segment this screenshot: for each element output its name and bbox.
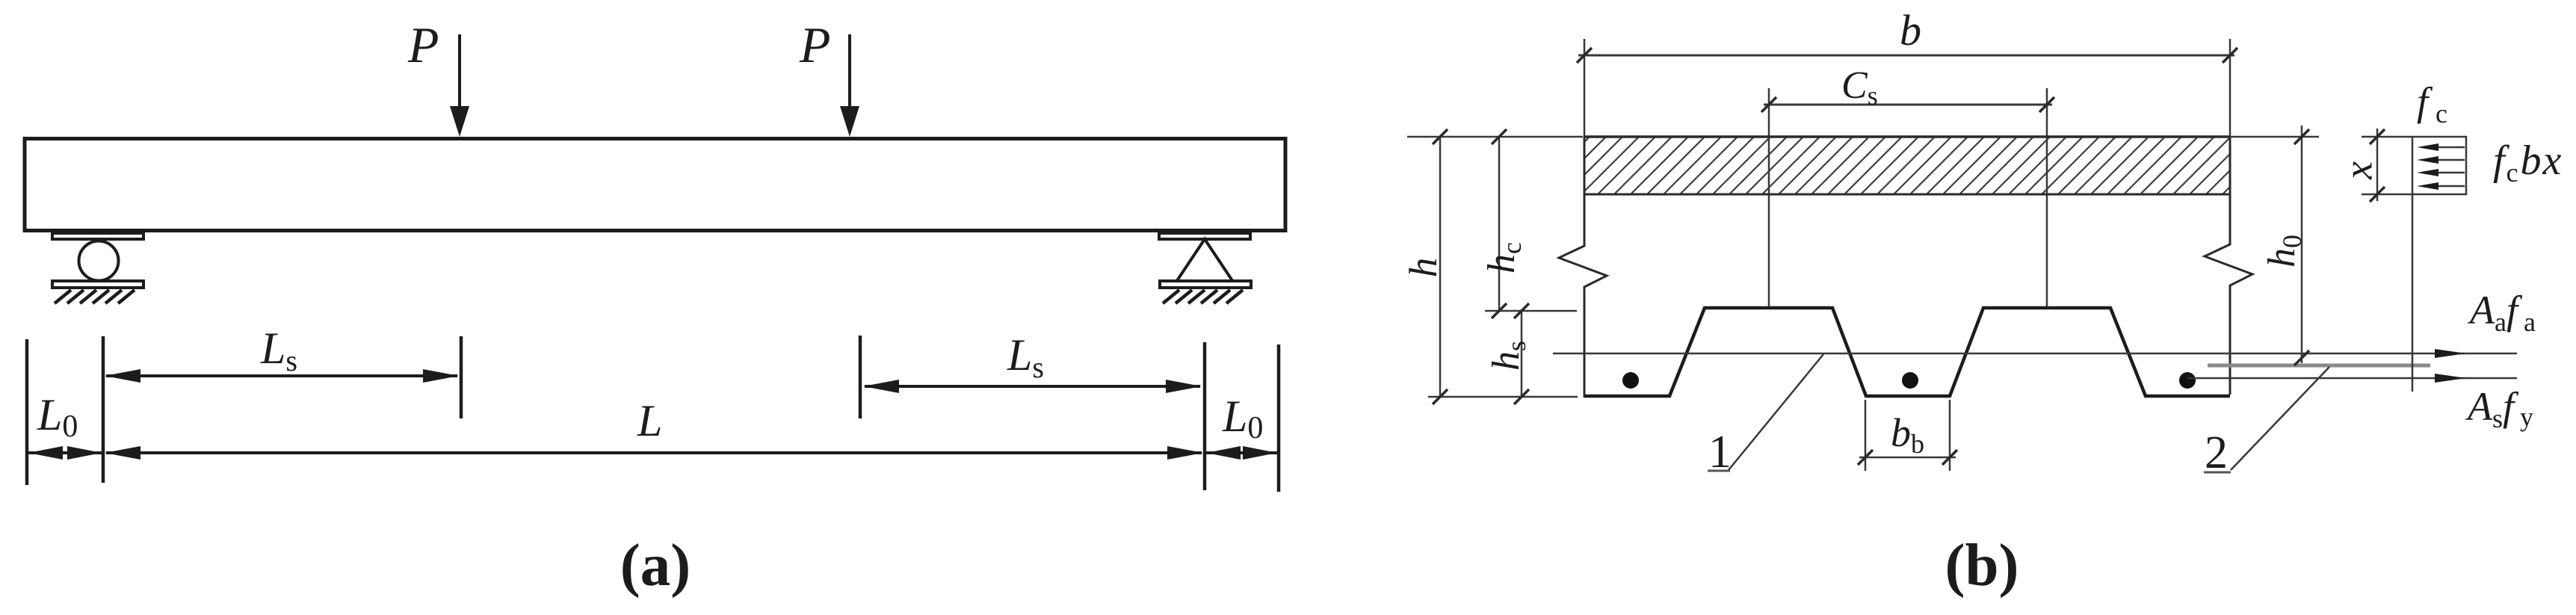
svg-text:x: x xyxy=(2335,161,2380,180)
dimension L0 left xyxy=(28,446,102,460)
label Ls right xyxy=(1007,330,1044,384)
dimension h0 xyxy=(2294,126,2309,365)
beam xyxy=(25,139,1285,231)
label fcbx xyxy=(2493,137,2563,188)
label bb xyxy=(1891,410,1924,459)
concrete slab hatched xyxy=(1584,137,2230,194)
svg-text:(b): (b) xyxy=(1945,531,2019,599)
svg-text:Aafa: Aafa xyxy=(2468,288,2536,337)
load arrow P2 xyxy=(840,34,859,137)
label x rotated xyxy=(2335,161,2380,180)
load arrow P1 xyxy=(450,34,469,137)
dimension tick B xyxy=(102,336,105,483)
label P1 xyxy=(407,16,439,73)
rebar dot 3 xyxy=(2179,372,2196,389)
rebar gray bar xyxy=(2208,364,2430,368)
label P2 xyxy=(799,16,831,73)
stress block axis line xyxy=(2412,137,2414,392)
extension line bottom left xyxy=(1428,396,1578,398)
svg-text:Asfy: Asfy xyxy=(2465,384,2533,433)
label h0 rotated xyxy=(2261,235,2307,268)
dimension x extension lines xyxy=(2362,137,2412,194)
stress block outline xyxy=(2412,137,2466,194)
svg-text:P: P xyxy=(407,16,439,73)
label Cs xyxy=(1841,64,1878,111)
extension line mid left xyxy=(1485,310,1577,312)
label L xyxy=(637,396,662,445)
slab left edge with break xyxy=(1559,137,1607,398)
svg-text:P: P xyxy=(799,16,831,73)
dimension bb xyxy=(1858,450,1957,465)
left roller support xyxy=(52,233,143,303)
label hc rotated xyxy=(1480,242,1527,273)
dimension Ls left xyxy=(105,369,459,383)
extension line top left xyxy=(1407,136,1583,138)
svg-text:hc: hc xyxy=(1480,242,1527,273)
steel deck profile xyxy=(1584,308,2230,396)
stress arrow 2 xyxy=(2417,156,2465,164)
dimension tick F xyxy=(1277,344,1281,492)
svg-text:Ls: Ls xyxy=(260,324,297,377)
dimension Ls right xyxy=(863,380,1202,393)
dimension bb extension lines xyxy=(1865,400,1950,471)
stress arrow 3 xyxy=(2417,169,2465,176)
dimension Cs xyxy=(1761,97,2054,112)
svg-text:h0: h0 xyxy=(2261,235,2307,268)
h0 extension line xyxy=(2230,136,2319,138)
label Ls left xyxy=(260,324,297,377)
svg-text:Cs: Cs xyxy=(1841,64,1878,111)
dimension tick A xyxy=(25,339,29,485)
dimension L0 right xyxy=(1206,446,1277,460)
slab right edge with break xyxy=(2205,137,2252,395)
svg-text:2: 2 xyxy=(2205,427,2228,478)
dimension b xyxy=(1577,48,2237,63)
dimension h xyxy=(1433,129,1448,404)
label fc xyxy=(2417,79,2447,129)
callout 1 xyxy=(1708,354,1823,478)
rebar dot 1 xyxy=(1622,372,1639,389)
label Aafa xyxy=(2468,288,2536,337)
dimension b extension lines xyxy=(1584,39,2230,137)
dimension hs xyxy=(1514,303,1529,404)
stress arrow 1 xyxy=(2417,143,2465,151)
label L0 right xyxy=(1222,392,1263,445)
label hs rotated xyxy=(1485,341,1531,371)
label b xyxy=(1900,6,1921,55)
label L0 left xyxy=(37,390,78,444)
svg-text:Ls: Ls xyxy=(1007,330,1044,384)
label Asfy xyxy=(2465,384,2533,433)
caption (b) xyxy=(1945,531,2019,599)
right pin support xyxy=(1159,233,1251,303)
rebar force line Asfy xyxy=(2187,374,2517,383)
label h rotated xyxy=(1402,258,1445,278)
dimension tick E xyxy=(1203,342,1207,490)
svg-text:b: b xyxy=(1900,6,1921,55)
svg-text:h: h xyxy=(1402,258,1445,278)
svg-text:L0: L0 xyxy=(37,390,78,444)
svg-text:L0: L0 xyxy=(1222,392,1263,445)
svg-text:(a): (a) xyxy=(620,531,691,599)
dimension hc xyxy=(1492,129,1507,318)
stress arrow 4 xyxy=(2417,182,2465,190)
caption (a) xyxy=(620,531,691,599)
svg-text:L: L xyxy=(637,396,662,445)
svg-text:hs: hs xyxy=(1485,341,1531,371)
dimension tick D xyxy=(859,336,862,418)
rebar dot 2 xyxy=(1902,372,1918,389)
svg-text:fc: fc xyxy=(2417,79,2447,129)
dimension tick C xyxy=(460,336,463,418)
svg-text:fcbx: fcbx xyxy=(2493,137,2563,188)
dimension x xyxy=(2370,129,2385,202)
svg-text:bb: bb xyxy=(1891,410,1924,459)
deck force line Aafa xyxy=(1553,349,2517,358)
callout 2 xyxy=(2204,367,2329,478)
dimension Cs extension lines xyxy=(1769,88,2047,308)
dimension L xyxy=(105,446,1203,460)
